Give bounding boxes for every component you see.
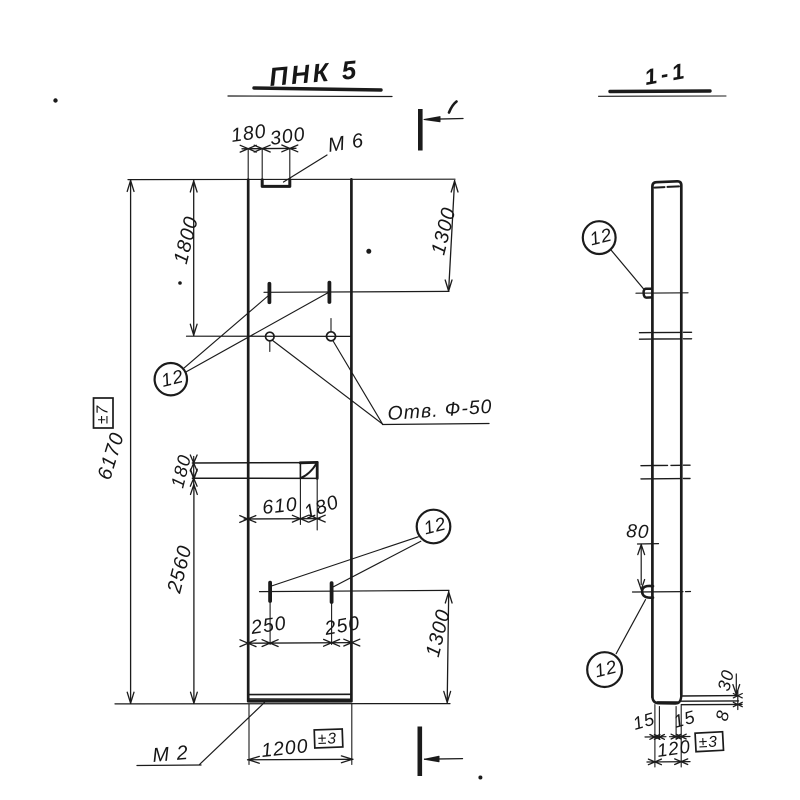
- leader balloon12 to tick2: [186, 293, 327, 372]
- dim 180 ledge height: [167, 452, 198, 490]
- svg-text:250: 250: [322, 612, 362, 640]
- svg-text:1-1: 1-1: [643, 58, 690, 90]
- svg-text:300: 300: [269, 123, 307, 150]
- title PNK5: [228, 54, 392, 96]
- leader balloon12 to tick1: [184, 296, 268, 368]
- weld line lower: [633, 591, 691, 594]
- svg-text:±3: ±3: [318, 730, 338, 748]
- break lines lower: [641, 465, 690, 479]
- dim line 250/250: [240, 639, 360, 646]
- tolerance box ±3 right: [695, 732, 723, 752]
- section cut mark bottom: [420, 727, 463, 777]
- dim 6170 far left: [94, 180, 134, 704]
- dim 120: [647, 735, 692, 764]
- svg-text:М 6: М 6: [326, 130, 365, 157]
- hidden dash at bar top: [655, 186, 680, 187]
- section bar outline: [652, 181, 681, 697]
- base plate side lines: [681, 696, 742, 705]
- dim 1200 extension lines: [248, 704, 250, 765]
- panel outline: [248, 179, 351, 701]
- dim line 1200: [248, 756, 354, 763]
- rivet lower: [642, 586, 653, 598]
- svg-text:Отв. Ф-50: Отв. Ф-50: [387, 396, 493, 425]
- svg-text:М 2: М 2: [152, 742, 190, 767]
- hole row line: [187, 335, 352, 337]
- upper anchor tick right: [327, 283, 331, 302]
- svg-text:1200: 1200: [260, 735, 309, 762]
- label holes d50: [383, 396, 494, 425]
- svg-text:12: 12: [159, 365, 186, 391]
- dim line 180/300 top: [240, 145, 298, 152]
- hole left: [266, 332, 275, 351]
- tick extension lines down: [269, 601, 271, 645]
- dim line 610/180: [240, 515, 325, 522]
- callout balloon 12 right-upper: [583, 221, 616, 254]
- callout balloon 12 mid: [417, 510, 451, 544]
- hole right: [327, 319, 336, 341]
- section bar bottom foot: [652, 695, 681, 704]
- svg-text:1300: 1300: [428, 205, 461, 257]
- bar bottom thick line: [658, 701, 678, 704]
- notch extension lines: [247, 149, 249, 180]
- rivet upper: [644, 289, 652, 298]
- svg-text:6170: 6170: [94, 430, 129, 483]
- svg-text:8: 8: [711, 708, 733, 723]
- svg-text:12: 12: [587, 224, 614, 250]
- dim 80 right view: [626, 521, 659, 590]
- svg-text:1800: 1800: [170, 214, 203, 266]
- svg-text:12: 12: [421, 513, 448, 539]
- section cut mark top: [420, 102, 463, 151]
- leader to rivet upper: [611, 250, 645, 290]
- stray dot mid right: [367, 249, 371, 253]
- svg-text:15: 15: [631, 709, 658, 734]
- tolerance box ±7: [94, 398, 114, 428]
- lower anchor tick right: [330, 583, 334, 602]
- stray dot top-left: [54, 99, 57, 102]
- dim 1800 left: [170, 180, 203, 336]
- leader balloon12mid to tick3: [272, 537, 419, 586]
- svg-text:15: 15: [671, 707, 698, 732]
- dim 15 right: [670, 707, 698, 739]
- svg-text:12: 12: [592, 656, 619, 682]
- extension lines 610/180: [299, 478, 301, 524]
- stray dot bottom right of left view: [479, 776, 482, 779]
- svg-text:180: 180: [230, 120, 268, 147]
- title 1-1: [599, 58, 727, 97]
- ledge end square with diagonal: [300, 462, 317, 478]
- lower anchor row line: [260, 590, 450, 591]
- dim 15 left: [631, 709, 666, 740]
- label M6 with leader: [284, 130, 366, 182]
- notch M6 at panel top: [262, 180, 290, 187]
- middle ledge strip: [192, 463, 317, 479]
- top extension line over panel: [128, 178, 455, 180]
- upper anchor row line: [264, 290, 449, 293]
- dim 8: [711, 691, 742, 723]
- svg-text:120: 120: [656, 735, 692, 761]
- break lines upper: [640, 332, 692, 339]
- leader to hole left: [272, 340, 383, 424]
- weld line upper: [636, 292, 688, 294]
- svg-text:±3: ±3: [698, 734, 718, 752]
- svg-text:2560: 2560: [163, 543, 196, 596]
- callout balloon 12 upper: [155, 363, 187, 395]
- leader balloon12mid to tick4: [333, 541, 421, 587]
- label M2 with leader: [137, 703, 265, 767]
- dim 1300 bottom right: [422, 591, 455, 702]
- callout balloon 12 right-lower: [587, 652, 622, 687]
- dim 1300 top right: [428, 181, 461, 292]
- svg-text:1300: 1300: [422, 607, 455, 659]
- leader to rivet lower: [616, 600, 645, 654]
- upper anchor tick left: [267, 284, 271, 302]
- svg-text:610: 610: [261, 493, 299, 519]
- dim 2560 left: [163, 469, 197, 703]
- leader to hole right: [333, 341, 383, 425]
- svg-text:ПНК 5: ПНК 5: [268, 54, 360, 92]
- svg-text:±7: ±7: [95, 404, 112, 424]
- foot extension lines: [654, 705, 656, 768]
- tolerance box ±3 left: [314, 729, 343, 748]
- dim 30: [713, 667, 739, 694]
- base plate M2 lines: [250, 694, 352, 699]
- svg-text:80: 80: [626, 521, 650, 543]
- svg-text:180: 180: [301, 491, 342, 524]
- bottom extension line: [115, 703, 450, 705]
- stray dot left: [179, 282, 182, 285]
- lower anchor tick left: [268, 583, 272, 601]
- svg-text:250: 250: [249, 612, 288, 639]
